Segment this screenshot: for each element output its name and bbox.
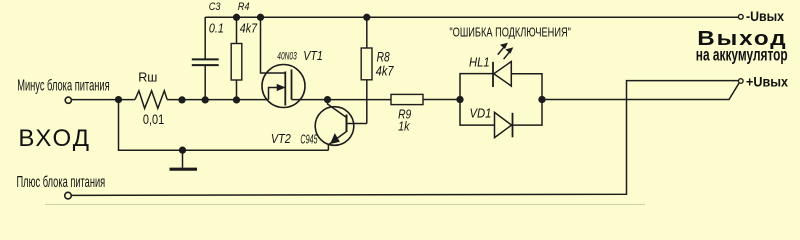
svg-text:на аккумулятор: на аккумулятор <box>696 45 788 65</box>
node: C3 bottom junction <box>202 97 208 103</box>
diode VD1 (points right) <box>495 112 512 137</box>
terminal -Uvyh <box>738 14 743 19</box>
wire: minus rail left <box>72 99 136 101</box>
capacitor C3 <box>204 17 206 59</box>
svg-text:C945: C945 <box>300 134 317 148</box>
node: bare dot on rail <box>179 97 185 103</box>
wire: top rail <box>205 16 738 18</box>
wire: drain to rail <box>292 99 392 101</box>
svg-text:ВХОД: ВХОД <box>18 125 91 152</box>
wire: bottom line from minus dot <box>119 100 329 151</box>
node: R4 bottom junction <box>234 97 240 103</box>
node: VT2 collector junction <box>325 97 331 103</box>
wire: source corner <box>269 88 280 100</box>
VT2 emitter arrow <box>331 134 340 144</box>
node: R4 top junction <box>234 14 240 20</box>
svg-text:R4: R4 <box>238 1 250 13</box>
transistor VT1 (MOSFET 40N03) <box>262 65 305 108</box>
svg-text:40N03: 40N03 <box>277 50 297 62</box>
svg-text:HL1: HL1 <box>469 55 490 70</box>
VT2 base lead wire <box>347 123 367 125</box>
resistor R8 <box>366 17 368 48</box>
svg-text:VD1: VD1 <box>470 106 492 121</box>
svg-text:C3: C3 <box>209 1 221 13</box>
terminal minus input <box>65 97 71 103</box>
svg-text:Rш: Rш <box>138 70 157 84</box>
node: gate lead junction <box>258 14 264 20</box>
VT2 emitter lead <box>328 132 346 151</box>
ground <box>182 150 184 167</box>
HL1 light arrow 1 <box>498 47 504 55</box>
node: ground junction <box>180 147 186 153</box>
svg-text:VT2: VT2 <box>271 131 291 146</box>
transistor VT2 (C945) <box>315 107 354 146</box>
node: LED branch left <box>457 97 463 103</box>
VT1 substrate arrow <box>277 85 284 91</box>
node: R8 top junction <box>364 14 370 20</box>
node: LED branch right <box>539 97 545 103</box>
svg-text:VT1: VT1 <box>303 48 323 63</box>
VT2 collector lead <box>328 100 347 118</box>
LED HL1 (points left) <box>492 62 494 87</box>
svg-text:+Uвых: +Uвых <box>746 74 789 90</box>
VT2 base bar <box>346 115 348 133</box>
terminal plus input <box>65 192 72 199</box>
wire: rail R9 to LED node <box>423 99 460 101</box>
wire: R8 bottom to VT2 base (crosses rail) <box>366 80 368 124</box>
svg-text:-Uвых: -Uвых <box>746 8 785 24</box>
resistor R4 <box>236 17 238 44</box>
svg-text:0.1: 0.1 <box>209 22 224 36</box>
wire: plus feed line <box>71 81 738 196</box>
svg-text:0,01: 0,01 <box>143 112 164 127</box>
VT1 channel bar <box>291 70 293 100</box>
HL1 light arrow 2 <box>504 51 510 59</box>
wire: HL1 branch <box>460 74 493 100</box>
resistor R9 <box>391 94 423 104</box>
svg-text:4k7: 4k7 <box>376 63 395 79</box>
svg-text:Плюс блока питания: Плюс блока питания <box>17 173 106 191</box>
wire: VD1 branch <box>460 100 495 126</box>
wire: gate lead <box>261 17 285 73</box>
resistor Rsh zigzag <box>135 91 167 109</box>
bottom edge strip <box>45 204 645 205</box>
node: junction dot to bottom line <box>116 97 122 103</box>
wire: rail to +Uvyh diagonal <box>542 83 739 99</box>
svg-text:"ОШИБКА ПОДКЛЮЧЕНИЯ": "ОШИБКА ПОДКЛЮЧЕНИЯ" <box>449 26 571 40</box>
svg-text:1k: 1k <box>398 120 410 134</box>
svg-text:4k7: 4k7 <box>240 22 258 36</box>
wire: rail after Rsh <box>167 99 268 101</box>
VT1 gate bar <box>284 72 286 106</box>
svg-text:Минус блока питания: Минус блока питания <box>17 76 109 94</box>
terminal +Uvyh <box>739 79 744 84</box>
